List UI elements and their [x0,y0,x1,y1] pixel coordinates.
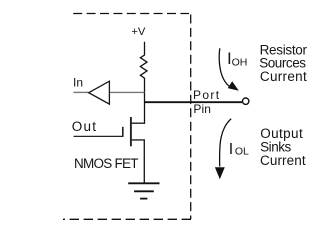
svg-text:I: I [229,141,233,158]
svg-text:Port: Port [193,88,220,102]
svg-text:In: In [73,76,83,90]
svg-text:Pin: Pin [193,102,211,116]
svg-text:OL: OL [235,146,249,158]
svg-text:OH: OH [232,57,248,69]
svg-text:NMOS FET: NMOS FET [74,156,138,171]
svg-text:Current: Current [260,153,306,168]
svg-text:Out: Out [72,119,97,134]
svg-text:+V: +V [131,26,146,38]
svg-text:Current: Current [260,69,307,84]
